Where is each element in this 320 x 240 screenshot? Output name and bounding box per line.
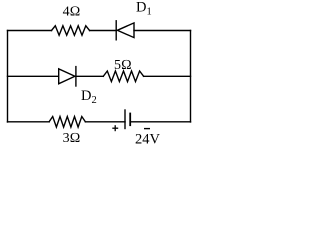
diode D2 (59, 67, 76, 86)
svg-text:24V: 24V (135, 131, 161, 147)
label battery plus (112, 125, 118, 131)
wire between D2 and 5ohm (76, 75, 103, 77)
svg-text:D1: D1 (136, 0, 152, 18)
wire between 3ohm and battery (85, 121, 125, 123)
resistor R 3ohm (49, 117, 85, 128)
wire top right segment (134, 30, 191, 32)
svg-text:4Ω: 4Ω (63, 5, 81, 20)
battery V1 24V (125, 110, 130, 129)
label battery minus (144, 128, 150, 130)
wire bottom right segment (130, 121, 190, 123)
resistor R 4ohm (52, 26, 90, 35)
wire bottom left segment (8, 121, 50, 123)
wire middle right segment (144, 75, 191, 77)
wire middle left segment (8, 75, 59, 77)
wire between 4ohm and D1 (90, 30, 117, 32)
svg-text:5Ω: 5Ω (114, 58, 132, 73)
svg-text:D2: D2 (81, 88, 97, 106)
wire left vertical (7, 31, 9, 123)
wire right vertical (190, 31, 192, 123)
resistor R 5ohm (103, 71, 143, 82)
wire top left segment (8, 30, 52, 32)
svg-text:3Ω: 3Ω (63, 131, 81, 146)
diode D1 (116, 21, 134, 40)
